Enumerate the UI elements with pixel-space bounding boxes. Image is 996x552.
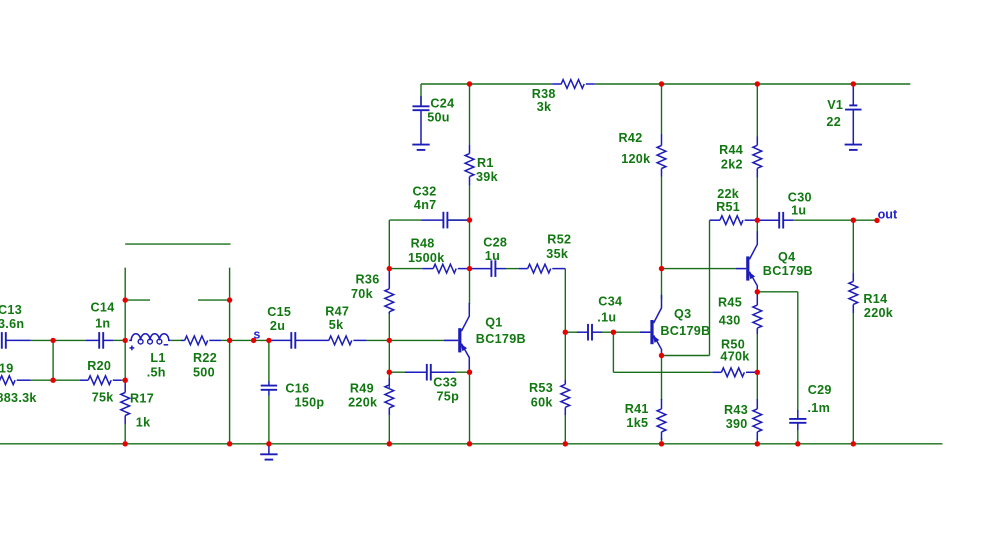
resistor R20 [80, 379, 88, 381]
junction R42/Q4 base node [659, 266, 664, 271]
wire top supply rail left segment [421, 83, 552, 85]
junction Q3 emitter node [659, 353, 664, 358]
capacitor C33 [405, 371, 427, 373]
svg-text:R22: R22 [193, 351, 217, 365]
wire column G R45 to R50 node [756, 329, 758, 373]
resistor R48 [422, 268, 433, 270]
svg-text:C30: C30 [788, 190, 812, 204]
switch left contact stub [125, 299, 150, 301]
wire column G R51 node to Q4 collector [756, 220, 758, 233]
svg-text:883.3k: 883.3k [0, 391, 37, 405]
svg-text:1k: 1k [136, 416, 151, 430]
svg-text:R17: R17 [130, 392, 154, 406]
svg-text:R51: R51 [716, 200, 740, 214]
resistor R52 [519, 268, 528, 270]
wire column G R44 to R51 node [756, 178, 758, 221]
svg-text:L1: L1 [150, 351, 165, 365]
svg-text:Q1: Q1 [485, 316, 502, 330]
junction node A R48 row [387, 266, 392, 271]
wire bottom rail [0, 443, 942, 445]
junction top rail column B [467, 81, 472, 86]
capacitor C29 [797, 410, 799, 419]
junction bottom rail C29 [795, 441, 800, 446]
svg-text:.1u: .1u [597, 311, 616, 325]
wire column C C34 node to R53 [564, 332, 566, 381]
wire Q3 emitter node down to R41 [661, 356, 663, 400]
junction node A input row [387, 338, 392, 343]
junction out node [851, 218, 856, 223]
switch left column lower [124, 424, 126, 444]
capacitor C16 [268, 381, 270, 386]
wire column B R1 to C32 node [469, 186, 471, 221]
wire column B top rail to R1 [469, 84, 471, 145]
wire out node stub [853, 219, 877, 221]
svg-text:4n7: 4n7 [414, 198, 437, 212]
resistor R14 [852, 273, 854, 281]
svg-text:2k2: 2k2 [721, 157, 743, 171]
transistor Q1 [444, 339, 458, 341]
wire column A below C33 row to R49 [388, 372, 390, 388]
wire R22 to switch right column [221, 339, 230, 341]
svg-text:22k: 22k [717, 187, 740, 201]
svg-text:R52: R52 [547, 233, 571, 247]
wire C28 to R52 segment [506, 268, 519, 270]
resistor R1 [469, 145, 471, 154]
resistor R19 [0, 376, 15, 385]
svg-text:C16: C16 [285, 382, 309, 396]
wire switch column to C15 node [230, 339, 270, 341]
svg-text:R44: R44 [719, 143, 743, 157]
capacitor C32 [422, 219, 444, 221]
svg-text:3k: 3k [537, 100, 552, 114]
junction bottom rail x230 [227, 441, 232, 446]
svg-text:22: 22 [826, 115, 841, 129]
resistor R43 [756, 399, 758, 409]
junction bottom rail x125 [123, 441, 128, 446]
capacitor C34 [577, 331, 588, 333]
resistor R17 [124, 382, 126, 393]
wire R48 left lead from node A [389, 268, 422, 270]
capacitor C28 [470, 268, 492, 270]
svg-text:R14: R14 [863, 292, 887, 306]
svg-text:120k: 120k [621, 152, 651, 166]
wire R47 to node A [367, 339, 390, 341]
svg-text:out: out [878, 208, 898, 222]
svg-text:5k: 5k [329, 318, 344, 332]
wire column A R36 to input row [388, 312, 390, 341]
resistor R47 [305, 339, 329, 341]
ground below C16 [268, 444, 270, 455]
wire C14 to node at x=125 [113, 339, 126, 341]
wire column A from C32 row down to R48 row [388, 220, 390, 269]
wire Q1 emitter node to C33 node [469, 369, 471, 372]
resistor R22 [181, 339, 185, 341]
wire column E R42 to Q4 base node [661, 177, 663, 269]
resistor R38 [552, 83, 561, 85]
wire column B C32 node to R48 node [469, 220, 471, 269]
svg-text:390: 390 [726, 417, 748, 431]
wire top supply rail right segment [595, 83, 911, 85]
svg-text:R36: R36 [356, 273, 380, 287]
junction R45/R50/R43 node [755, 370, 760, 375]
junction bottom rail R41 [659, 441, 664, 446]
svg-text:470k: 470k [720, 350, 750, 364]
svg-text:Q4: Q4 [778, 250, 795, 264]
resistor R41 [661, 399, 663, 409]
svg-text:R53: R53 [529, 381, 553, 395]
junction input row x230 [227, 338, 232, 343]
svg-text:150p: 150p [295, 396, 325, 410]
wire node column x=53 between rows [52, 340, 54, 380]
svg-text:220k: 220k [348, 396, 378, 410]
junction bottom rail R43 [755, 441, 760, 446]
wire L1 to R22 segment [171, 339, 181, 341]
inductor L1 [129, 334, 171, 341]
svg-text:C15: C15 [267, 305, 291, 319]
svg-text:R43: R43 [724, 403, 748, 417]
svg-text:C24: C24 [430, 97, 454, 111]
capacitor C15 [270, 339, 291, 341]
wire column B R48 node to Q1 collector [469, 269, 471, 304]
svg-text:35k: 35k [546, 247, 569, 261]
svg-text:V1: V1 [827, 98, 843, 112]
svg-text:R47: R47 [325, 305, 349, 319]
svg-text:C33: C33 [433, 376, 457, 390]
svg-text:BC179B: BC179B [660, 324, 710, 338]
svg-text:1u: 1u [485, 249, 500, 263]
capacitor C13 [1, 332, 3, 349]
junction R44/R51/C30 node [755, 218, 760, 223]
junction Q4 emitter node [755, 289, 760, 294]
switch S armature bar [125, 243, 230, 245]
wire column C R53 to bottom rail [564, 413, 566, 444]
wire C34 to node D [601, 331, 613, 333]
wire column C down to C34 row [564, 269, 566, 333]
wire column E top rail to R42 [661, 84, 663, 134]
wire C33 row right of cap [455, 371, 470, 373]
junction C34/Q3 base node [611, 330, 616, 335]
svg-text:430: 430 [719, 314, 741, 328]
resistor R36 [388, 269, 390, 289]
resistor R51 [710, 219, 721, 221]
junction Q1 emitter node [467, 370, 472, 375]
svg-text:1n: 1n [95, 316, 110, 330]
svg-text:1u: 1u [791, 203, 806, 217]
junction bottom rail R14 [851, 441, 856, 446]
inductor L1 plus mark [130, 347, 135, 349]
junction bottom rail column B [467, 441, 472, 446]
svg-text:1k5: 1k5 [626, 416, 648, 430]
junction R19/R20 row x53 [50, 378, 55, 383]
wire input row from C13 to C14 [31, 339, 86, 341]
junction top rail column E [659, 81, 664, 86]
ground below C24 [412, 144, 429, 146]
svg-text:R48: R48 [411, 237, 435, 251]
svg-text:R45: R45 [718, 296, 742, 310]
junction switch left contact [123, 297, 128, 302]
wire C30 to out node [793, 219, 853, 221]
junction C32/R1 node [467, 217, 472, 222]
svg-text:75p: 75p [437, 390, 460, 404]
wire C16 to bottom rail [268, 396, 270, 444]
resistor R42 [661, 134, 663, 146]
svg-text:R19: R19 [0, 362, 14, 376]
wire column G R50 node to R43 [756, 372, 758, 400]
capacitor C24 [420, 84, 422, 106]
svg-text:BC179B: BC179B [763, 264, 813, 278]
wire column A R49 to bottom rail [388, 414, 390, 444]
svg-text:70k: 70k [351, 287, 374, 301]
resistor R50 [712, 371, 721, 373]
svg-text:R1: R1 [477, 156, 494, 170]
svg-text:R42: R42 [619, 131, 643, 145]
wire C34 row left segment [565, 331, 577, 333]
svg-text:1500k: 1500k [408, 251, 445, 265]
junction C15/C16 node [266, 338, 271, 343]
net label out [874, 218, 879, 223]
resistor R45 [756, 293, 758, 305]
svg-text:500: 500 [193, 365, 215, 379]
svg-text:.1m: .1m [808, 401, 831, 415]
resistor R44 [756, 137, 758, 146]
junction input row x125 [123, 338, 128, 343]
svg-text:C13: C13 [0, 303, 22, 317]
svg-text:C32: C32 [413, 185, 437, 199]
capacitor C14 [86, 339, 99, 341]
svg-text:R38: R38 [532, 87, 556, 101]
switch left column upper [124, 268, 126, 383]
wire Q4 base row [662, 268, 737, 270]
transistor Q4 [736, 268, 746, 270]
svg-text:220k: 220k [864, 306, 894, 320]
ground below V1 [845, 144, 862, 146]
wire column I out node to R14 [852, 220, 854, 273]
svg-text:.5h: .5h [147, 365, 166, 379]
wire R50 right lead to column G [747, 371, 758, 373]
wire column B C33 node to bottom rail [469, 372, 471, 444]
resistor R53 [564, 380, 566, 384]
svg-text:2u: 2u [270, 319, 285, 333]
svg-text:R41: R41 [625, 402, 649, 416]
switch right column [229, 268, 231, 444]
junction R52/R53/C34 node [563, 330, 568, 335]
wire column F up to R51 row [709, 220, 711, 355]
wire C29 column down [797, 292, 799, 411]
wire Q3 collector row to column F [662, 355, 710, 357]
capacitor C30 [757, 219, 779, 221]
wire column E R41 to bottom rail [661, 438, 663, 444]
svg-text:C28: C28 [483, 235, 507, 249]
wire Q4 emitter row to C29 column [757, 291, 798, 293]
svg-text:50u: 50u [427, 111, 450, 125]
wire C32 row left segment [389, 219, 421, 221]
svg-text:R49: R49 [350, 382, 374, 396]
junction bottom rail C16 [266, 441, 271, 446]
svg-text:75k: 75k [92, 391, 115, 405]
svg-text:s: s [253, 328, 260, 342]
svg-text:39k: 39k [476, 170, 499, 184]
inductor L1 minus mark [164, 344, 169, 346]
svg-text:C29: C29 [808, 383, 832, 397]
svg-text:3.6n: 3.6n [0, 317, 24, 331]
junction bottom rail R53 [563, 441, 568, 446]
svg-text:Q3: Q3 [674, 307, 691, 321]
wire column A input row down to C33 row [388, 340, 390, 372]
wire column I R14 to bottom rail [852, 313, 854, 444]
wire C16 column from input row [268, 340, 270, 381]
wire R20 right lead to x=125 [121, 379, 125, 381]
wire R50 row left segment [613, 371, 712, 373]
wire node A to Q1 base [389, 339, 444, 341]
wire column D down to R50 row [612, 332, 614, 372]
junction top rail column G [755, 81, 760, 86]
wire C33 row left of cap [389, 371, 405, 373]
svg-text:C34: C34 [598, 294, 622, 308]
svg-text:60k: 60k [531, 396, 554, 410]
wire column G top rail to R44 [756, 84, 758, 137]
resistor R49 [388, 378, 390, 385]
wire R19 to R20 row [31, 379, 80, 381]
wire C32 row right segment to column B [447, 219, 469, 221]
junction switch right contact [227, 297, 232, 302]
transistor Q3 [640, 331, 650, 333]
wire node D to Q3 base [613, 331, 640, 333]
junction R48/C28 node [467, 266, 472, 271]
svg-text:C14: C14 [91, 301, 115, 315]
wire column G R43 to bottom rail [756, 438, 758, 444]
net label s [251, 338, 256, 343]
junction node A C33 row [387, 370, 392, 375]
wire C29 to bottom rail [797, 430, 799, 444]
wire column E node to Q3 collector [661, 269, 663, 299]
junction R20/R17 [123, 378, 128, 383]
svg-text:BC179B: BC179B [476, 332, 526, 346]
svg-text:R20: R20 [87, 359, 111, 373]
voltage source V1 [852, 86, 854, 105]
junction input row x53 [50, 338, 55, 343]
switch right contact stub [198, 299, 230, 301]
junction bottom rail node A [387, 441, 392, 446]
junction top rail V1 [851, 81, 856, 86]
